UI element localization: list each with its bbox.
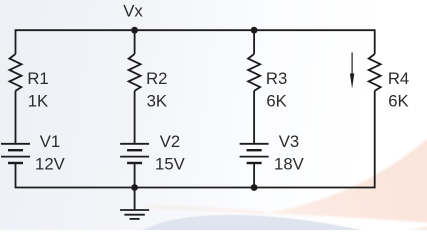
wire branch2 bottom stub	[134, 163, 136, 188]
wire branch3 top stub	[253, 30, 255, 54]
svg-text:3K: 3K	[147, 91, 167, 110]
svg-text:1K: 1K	[28, 91, 48, 110]
resistor R4	[369, 54, 381, 91]
wire branch3 bottom stub	[253, 163, 255, 188]
wire branch2 mid stub	[134, 91, 136, 144]
svg-text:6K: 6K	[388, 91, 408, 110]
wire branch1 mid stub	[15, 91, 17, 144]
node junction dot top branch3	[251, 27, 258, 34]
current arrow for R4	[350, 53, 354, 89]
background blue swoosh	[140, 215, 368, 236]
svg-text:V1: V1	[40, 132, 60, 151]
svg-text:6K: 6K	[266, 91, 286, 110]
svg-text:18V: 18V	[274, 154, 305, 173]
svg-text:R1: R1	[27, 69, 48, 88]
ground	[120, 188, 149, 219]
battery V2	[120, 144, 149, 163]
svg-text:V2: V2	[160, 132, 180, 151]
wire bottom rail	[16, 91, 375, 188]
svg-text:Vx: Vx	[123, 2, 143, 21]
svg-text:15V: 15V	[155, 154, 186, 173]
svg-text:V3: V3	[279, 132, 299, 151]
resistor R1	[10, 54, 22, 91]
wire branch2 top stub	[134, 30, 136, 54]
wire top rail	[16, 30, 375, 54]
node junction dot bottom branch2	[131, 184, 138, 191]
svg-text:R3: R3	[266, 69, 287, 88]
node junction dot top branch2	[131, 27, 138, 34]
node junction dot bottom branch3	[251, 184, 258, 191]
svg-text:R2: R2	[146, 69, 167, 88]
resistor R3	[248, 54, 260, 91]
svg-text:R4: R4	[388, 69, 409, 88]
resistor R2	[129, 54, 141, 91]
svg-text:12V: 12V	[35, 154, 66, 173]
background pink swoosh	[146, 132, 427, 231]
wire branch3 mid stub	[253, 91, 255, 144]
battery V3	[240, 144, 269, 163]
battery V1	[1, 144, 30, 163]
